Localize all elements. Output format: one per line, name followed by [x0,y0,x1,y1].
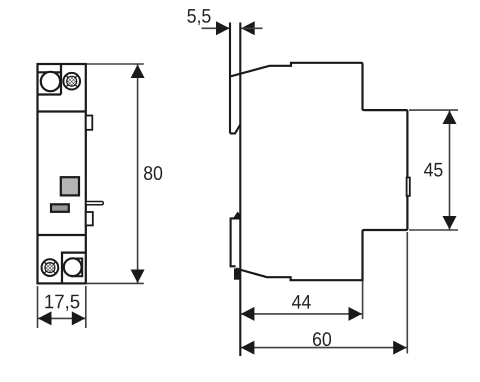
mid right tab [86,116,93,130]
dim 60 right arrow [393,341,407,355]
dim 45 bottom extension line [409,229,458,231]
dim 44 right extension line [362,281,364,319]
dim 5,5 left leader line [202,27,230,29]
dim 45 line [449,111,451,230]
dim 44 left arrow [241,307,255,321]
top-left terminal box [38,64,62,95]
gray indicator square [61,177,79,195]
bottom-right inner cage rect [71,259,82,277]
lower clip wedge (filled) [233,212,241,219]
din clip front edge line [229,23,231,134]
upper clip hook [230,124,240,133]
dim 45 top arrow [443,111,457,124]
dim 80 top extension line [87,63,144,65]
right edge latch tab [407,178,410,196]
label "45" [424,163,442,177]
top section divider line [38,110,86,112]
bottom-right terminal circle [64,258,82,276]
dim 80 bottom extension line [87,282,144,284]
dim 17,5 line [38,317,85,319]
bottom-right terminal box [62,253,86,284]
label "80" [144,166,162,180]
dim 44 line [241,313,362,315]
dim 45 top extension line [409,109,458,111]
dim 45 bottom arrow [443,216,457,230]
dim 17,5 right arrow [72,311,86,325]
lower clip outline [231,218,241,266]
lower right tab [86,212,93,225]
label "44" [292,295,311,309]
label "17,5" [45,295,79,311]
dim 80 bottom arrow [131,270,145,284]
top-right screw [63,73,80,90]
dim 5,5 left arrow [216,21,230,35]
dim 60 right extension line [406,232,408,354]
dim 17,5 left arrow [38,311,52,325]
dim 60 line [241,347,407,349]
front view body outline [38,64,86,283]
dim 80 top arrow [131,65,145,79]
side body outline [230,63,407,280]
label "5,5" [187,9,210,25]
dim 5,5 right arrow [241,21,255,35]
lower clip black end block [234,268,240,279]
right lever arm [86,202,104,205]
gray toggle bar [51,204,69,212]
dim 60 left arrow [241,341,255,355]
body left edge / extension line [239,23,241,357]
dim 17,5 right extension line [85,286,87,328]
bottom section divider line [38,234,86,236]
bottom-left screw [42,259,59,276]
dim 80 line [137,65,139,284]
label "60" [313,332,331,346]
top-left terminal circle [41,72,60,91]
dim 44 right arrow [349,307,363,321]
dim 17,5 left extension line [37,286,39,328]
dim 5,5 right leader line [241,27,263,29]
